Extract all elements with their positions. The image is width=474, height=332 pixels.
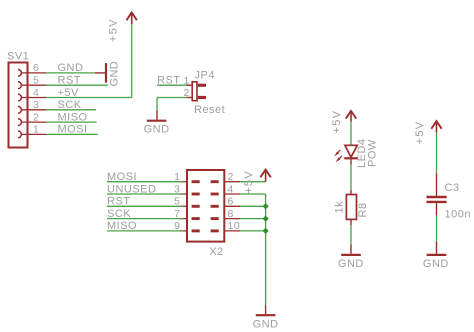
svg-text:2: 2 [33,111,39,123]
LED value label POW [366,139,378,167]
svg-text:GND: GND [58,62,84,74]
JP4 pin number 2 [183,87,189,99]
wire X2 pin 8 [240,218,265,220]
net label RST [107,196,131,208]
ground symbol (rotated) at SV1 pin 6 [95,61,121,87]
svg-text:X2: X2 [209,246,223,258]
svg-text:SV1: SV1 [7,51,29,63]
JP4 value label Reset [194,104,225,116]
net label MOSI [58,124,88,136]
pin header X2 [180,170,241,242]
svg-text:GND: GND [253,319,279,331]
wire net SCK from SV1 pin 3 [46,109,96,111]
ground symbol below R8 [338,255,364,270]
svg-text:C3: C3 [445,182,460,194]
X2 even pin numbers 2,4,6,8,10 [228,171,241,232]
SV1 name label [7,51,29,63]
svg-text:RST: RST [107,196,131,208]
JP4 name label [195,69,215,81]
ground symbol below X2 [253,306,279,331]
junction at X2 pin 10 [263,228,269,234]
svg-text:Reset: Reset [194,104,225,116]
svg-text:GND: GND [109,61,121,87]
svg-text:R8: R8 [357,202,369,217]
svg-text:RST: RST [58,75,82,87]
net label MOSI [107,171,137,183]
svg-text:MISO: MISO [107,220,137,232]
svg-text:MOSI: MOSI [58,124,88,136]
wire net SCK to X2 pin 7 [107,218,184,220]
wire net MOSI from SV1 pin 1 [46,133,98,135]
svg-text:4: 4 [228,183,234,195]
svg-text:+5V: +5V [331,110,343,134]
junction at X2 pin 6 [263,203,269,209]
net label MISO [58,111,88,123]
svg-text:RST: RST [157,75,181,87]
net label RST [58,75,82,87]
wire net RST to X2 pin 5 [107,205,184,207]
svg-text:+5V: +5V [108,18,120,42]
svg-text:POW: POW [366,139,378,167]
capacitor C3 [427,197,447,202]
wire C3 to ground [436,203,438,254]
svg-text:SCK: SCK [58,99,82,111]
net label SCK [58,99,82,111]
wire X2 pin 10 [240,230,265,232]
svg-text:SCK: SCK [107,208,131,220]
JP4 pin number 1 [183,75,189,87]
svg-text:10: 10 [228,220,241,232]
LED name label LED4 [356,138,368,168]
svg-text:1k: 1k [333,201,345,214]
net label UNUSED [107,183,156,195]
svg-text:3: 3 [33,99,39,111]
resistor R8 [346,195,356,220]
jumper JP4 [186,82,206,101]
wire +5V to C3 [436,133,438,196]
svg-text:2: 2 [228,171,234,183]
SV1 pin numbers 6..1 [33,62,39,136]
X2 odd pin numbers 1,3,5,7,9 [174,171,180,232]
wire R8 to ground [350,219,352,253]
C3 name label [445,182,460,194]
svg-text:6: 6 [33,62,39,74]
net label +5V [58,87,80,99]
supply +5V symbol at LED [331,110,356,134]
ground symbol below C3 [423,255,449,270]
svg-text:100n: 100n [445,209,471,221]
R8 value label 1k [333,201,345,214]
svg-text:GND: GND [423,258,449,270]
wire net GND from SV1 pin 6 [46,72,95,74]
svg-text:UNUSED: UNUSED [107,183,156,195]
svg-text:+5V: +5V [58,87,80,99]
ground symbol below JP4 [144,110,170,135]
svg-text:+5V: +5V [414,121,426,145]
connector SV1 [9,63,47,148]
svg-text:8: 8 [228,208,234,220]
svg-text:1: 1 [33,124,39,136]
net label RST at JP4 [157,75,181,87]
C3 value label 100n [445,209,471,221]
svg-text:MOSI: MOSI [107,171,137,183]
wire LED cathode to resistor R8 [350,159,352,194]
junction at X2 pin 8 [263,216,269,222]
svg-text:MISO: MISO [58,111,88,123]
svg-text:+5V: +5V [243,170,255,194]
svg-text:5: 5 [33,75,39,87]
R8 name label [357,202,369,217]
supply +5V symbol at C3 [414,121,442,145]
wire net MOSI to X2 pin 1 [107,181,184,183]
wire net RST to JP4 pin 1 [157,84,186,86]
svg-text:1: 1 [183,75,189,87]
wire net +5V from SV1 pin 4 [46,24,132,97]
X2 name label [209,246,223,258]
svg-text:GND: GND [338,258,364,270]
wire +5V to LED anode [350,122,352,145]
svg-text:4: 4 [33,87,39,99]
svg-text:GND: GND [144,124,170,136]
wire X2 pin 4 to ground rail [240,194,265,306]
wire net MISO from SV1 pin 2 [46,121,97,123]
net label MISO [107,220,137,232]
svg-text:JP4: JP4 [195,69,215,81]
svg-text:6: 6 [228,196,234,208]
supply +5V symbol at X2 [243,170,271,194]
supply +5V symbol above SV1 [108,13,137,43]
wire net RST from SV1 pin 5 [46,84,108,86]
wire X2 pin 6 [240,205,265,207]
net label GND [58,62,84,74]
wire net MISO to X2 pin 9 [107,230,184,232]
LED LED4 POW [334,145,358,162]
net label SCK [107,208,131,220]
wire net UNUSED to X2 pin 3 [107,193,184,195]
wire X2 pin 2 to +5V [240,181,265,183]
wire JP4 pin 2 to ground [157,98,186,111]
